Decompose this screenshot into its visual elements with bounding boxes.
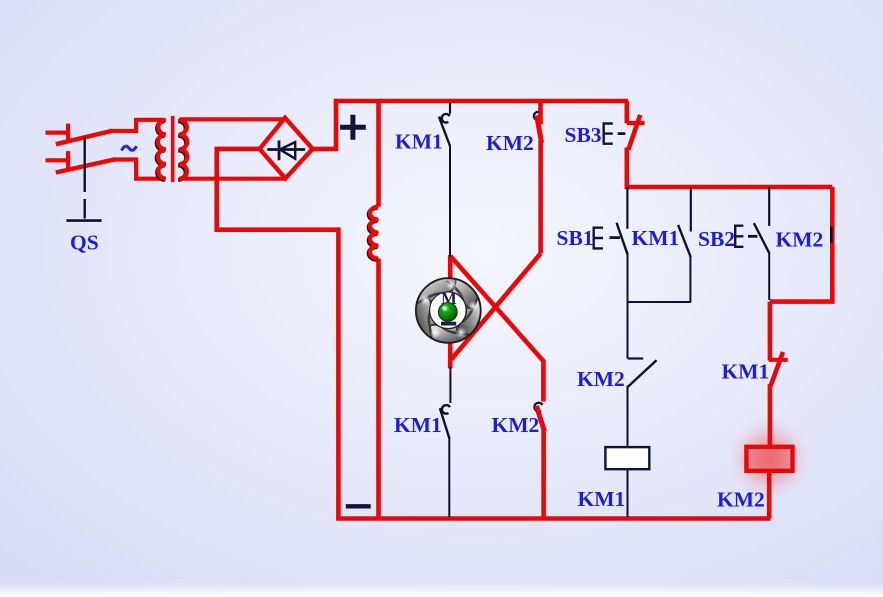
transformer T1 core bar bbox=[171, 116, 175, 182]
switch QS pole 1 blade bbox=[56, 131, 112, 144]
node plus symbol bbox=[340, 115, 366, 140]
svg-text:KM2: KM2 bbox=[776, 228, 824, 252]
transformer T1 secondary winding bbox=[179, 120, 187, 179]
svg-text:SB1: SB1 bbox=[557, 226, 594, 250]
contact KM2 aux column (closed, right side) bbox=[770, 187, 832, 302]
contact KM1 main bottom hook bbox=[442, 405, 450, 414]
wire pole2 to transformer primary bottom bbox=[114, 160, 164, 179]
transformer T1 primary winding bbox=[158, 120, 166, 179]
coil KM1 (de-energized) bbox=[605, 447, 649, 469]
wire rectifier right vertex to plus rail bbox=[313, 101, 336, 149]
contact KM2 main bottom hook remnant bbox=[534, 403, 542, 412]
svg-text:KM2: KM2 bbox=[577, 367, 625, 391]
svg-text:QS: QS bbox=[70, 231, 99, 255]
wire pole1 to transformer primary top bbox=[111, 120, 164, 131]
svg-text:KM2: KM2 bbox=[486, 131, 534, 155]
switch QS pole 2 blade bbox=[56, 159, 115, 172]
switch QS linkage bar bbox=[83, 138, 85, 219]
motor DC bar under M bbox=[441, 322, 456, 326]
rectifier diode cathode bar bbox=[278, 141, 281, 161]
wire KM1 column to motor bbox=[449, 145, 451, 257]
wire SB3 to control rail bbox=[624, 148, 629, 188]
svg-text:KM2: KM2 bbox=[492, 413, 540, 437]
contact KM1 main top stub bbox=[449, 103, 451, 114]
svg-text:KM1: KM1 bbox=[395, 130, 443, 154]
wire KM2 column above crossing bbox=[538, 141, 543, 254]
svg-text:KM2: KM2 bbox=[717, 488, 765, 512]
wire parallel join branch A bbox=[628, 301, 691, 303]
bridge rectifier diamond bbox=[260, 118, 313, 179]
contact KM1 main bottom blade (open) bbox=[440, 408, 450, 438]
svg-text:SB2: SB2 bbox=[698, 227, 735, 251]
contact KM1 interlock blade (NC closed) bbox=[771, 352, 783, 386]
button SB1 blade (NO open) bbox=[617, 223, 628, 254]
contact KM2 main top stub bbox=[538, 101, 543, 124]
wire crossing diagonal A bbox=[450, 256, 544, 362]
top plus rail bbox=[334, 99, 628, 104]
field winding L coil bbox=[370, 207, 379, 259]
contact KM2 main bottom blade (closed) bbox=[536, 406, 544, 432]
button SB3 blade (NC closed) bbox=[628, 115, 640, 150]
svg-text:KM1: KM1 bbox=[394, 413, 442, 437]
contact KM2 interlock fixed tick bbox=[628, 357, 644, 359]
wire KM2 interlock to coil KM1 bbox=[627, 386, 629, 448]
wire KM2 bottom to minus rail bbox=[541, 430, 546, 519]
svg-text:KM1: KM1 bbox=[722, 360, 770, 384]
button SB3 operator dash bbox=[618, 132, 626, 135]
wire coil KM1 to minus rail bbox=[627, 469, 629, 517]
svg-text:KM1: KM1 bbox=[578, 487, 626, 511]
label AC tilde bbox=[122, 146, 137, 150]
svg-text:SB3: SB3 bbox=[565, 123, 602, 147]
contact KM1 aux blade (NO open) bbox=[678, 225, 691, 257]
button SB3 fixed tick bbox=[627, 121, 645, 125]
switch QS pole 2 lead wire bbox=[46, 158, 69, 162]
contact KM1 aux top stub bbox=[690, 187, 692, 232]
button SB2 operator dash bbox=[748, 235, 757, 238]
button SB1 operator dash bbox=[610, 236, 621, 239]
button SB2 blade (NO open) bbox=[754, 223, 769, 253]
contact KM2 main top blade (closed) bbox=[537, 116, 542, 144]
contact KM1 main top hook bbox=[442, 114, 450, 123]
transformer T1 primary winding shadow bbox=[157, 121, 165, 180]
switch QS pole 2 terminal tick bbox=[66, 151, 70, 170]
svg-text:KM1: KM1 bbox=[632, 226, 680, 250]
wire secondary bottom to rectifier bottom vertex bbox=[179, 177, 285, 181]
control rail bbox=[627, 185, 833, 187]
wire KM1 bottom to minus rail bbox=[448, 438, 450, 518]
wire SB1 lower bbox=[627, 253, 629, 303]
wire KM2 aux junction down to KM1 interlock bbox=[768, 302, 773, 361]
wire branch A down to KM2 interlock bbox=[627, 300, 629, 359]
button SB2 operator cap bbox=[735, 226, 743, 247]
button SB1 top stub bbox=[626, 187, 628, 229]
field winding branch upper wire bbox=[376, 101, 381, 207]
contact KM2 main top hook remnant bbox=[534, 112, 542, 120]
coil KM2 (energized) bbox=[746, 447, 792, 471]
wire KM2 column below crossing bbox=[541, 360, 546, 402]
wire coil KM2 to minus rail bbox=[767, 470, 772, 519]
wire rectifier left vertex to minus column bbox=[217, 149, 339, 519]
button SB1 operator cap bbox=[594, 228, 603, 249]
node minus symbol bbox=[346, 504, 371, 508]
transformer T1 secondary winding shadow bbox=[178, 121, 186, 180]
wire SB2 lower bbox=[768, 252, 770, 301]
wire KM1 aux lower bbox=[689, 256, 691, 303]
button SB3 operator cap bbox=[604, 124, 613, 144]
switch QS pole 1 lead wire bbox=[46, 131, 69, 135]
rectifier diode lead line bbox=[267, 148, 305, 151]
switch QS pole 1 terminal tick bbox=[66, 124, 70, 143]
button SB3 stub from rail bbox=[624, 101, 629, 123]
rectifier diode triangle bbox=[280, 142, 295, 159]
motor M armature icon bbox=[416, 278, 481, 343]
wire secondary top to rectifier top vertex bbox=[179, 117, 285, 121]
contact KM1 main top blade (open) bbox=[439, 117, 450, 146]
wire KM1 interlock to coil KM2 bbox=[768, 384, 773, 448]
wire motor branch below crossing bbox=[449, 367, 451, 403]
motor green indicator ball bbox=[438, 303, 457, 322]
glow around energized coil KM2 bbox=[727, 417, 811, 501]
contact KM1 interlock fixed tick bbox=[769, 358, 788, 362]
bottom minus rail bbox=[336, 516, 770, 521]
contact KM2 interlock blade (NC open) bbox=[628, 360, 657, 387]
field winding branch lower wire bbox=[376, 259, 381, 519]
wire crossing diagonal B bbox=[452, 254, 541, 360]
switch QS handle bbox=[66, 219, 101, 222]
contact KM2 aux hook remnant bbox=[830, 227, 833, 244]
wire armature column red segment through motor bbox=[448, 255, 453, 369]
button SB2 top stub bbox=[768, 187, 770, 226]
field winding L shadow bbox=[369, 208, 378, 260]
